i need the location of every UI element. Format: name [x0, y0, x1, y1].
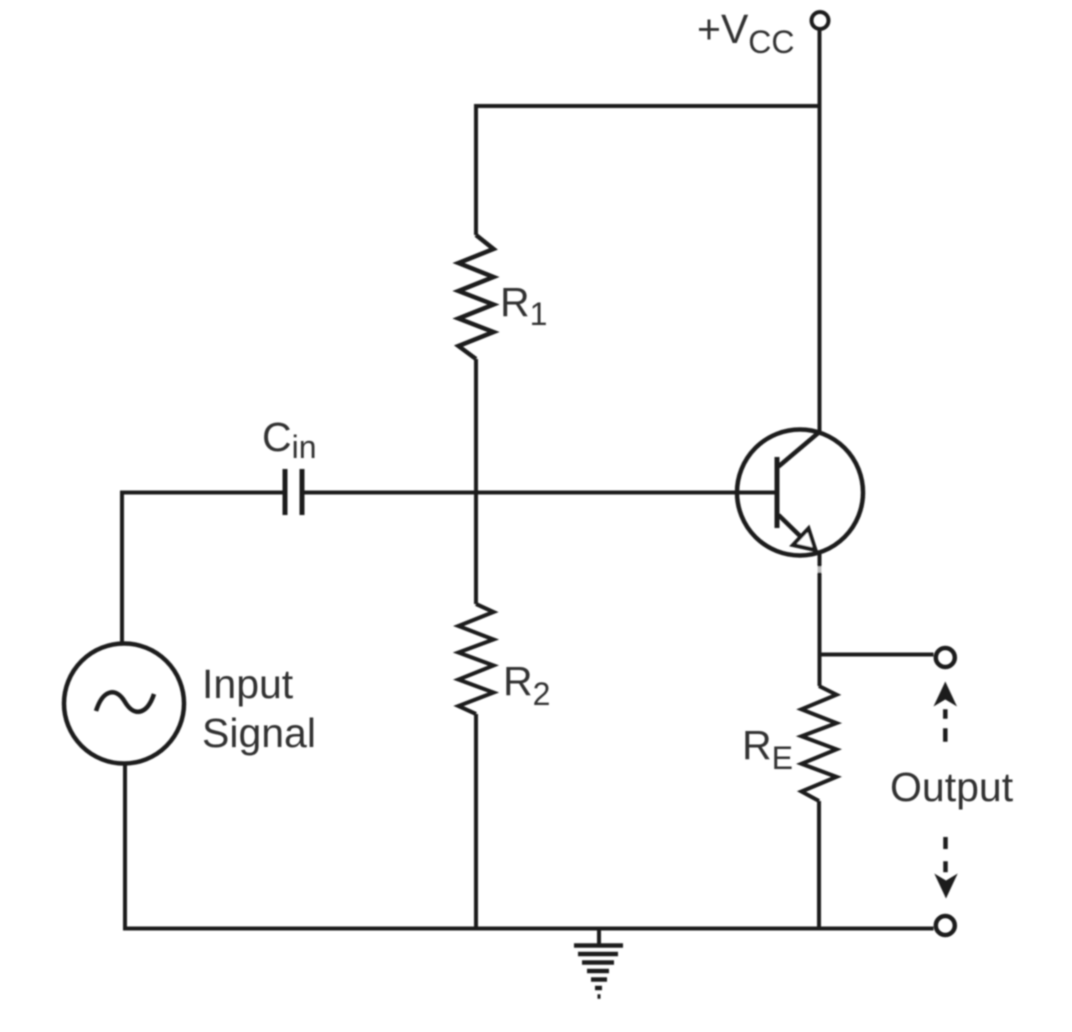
svg-text:Signal: Signal — [202, 710, 316, 756]
svg-text:Output: Output — [890, 764, 1014, 810]
svg-text:Input: Input — [202, 661, 294, 707]
